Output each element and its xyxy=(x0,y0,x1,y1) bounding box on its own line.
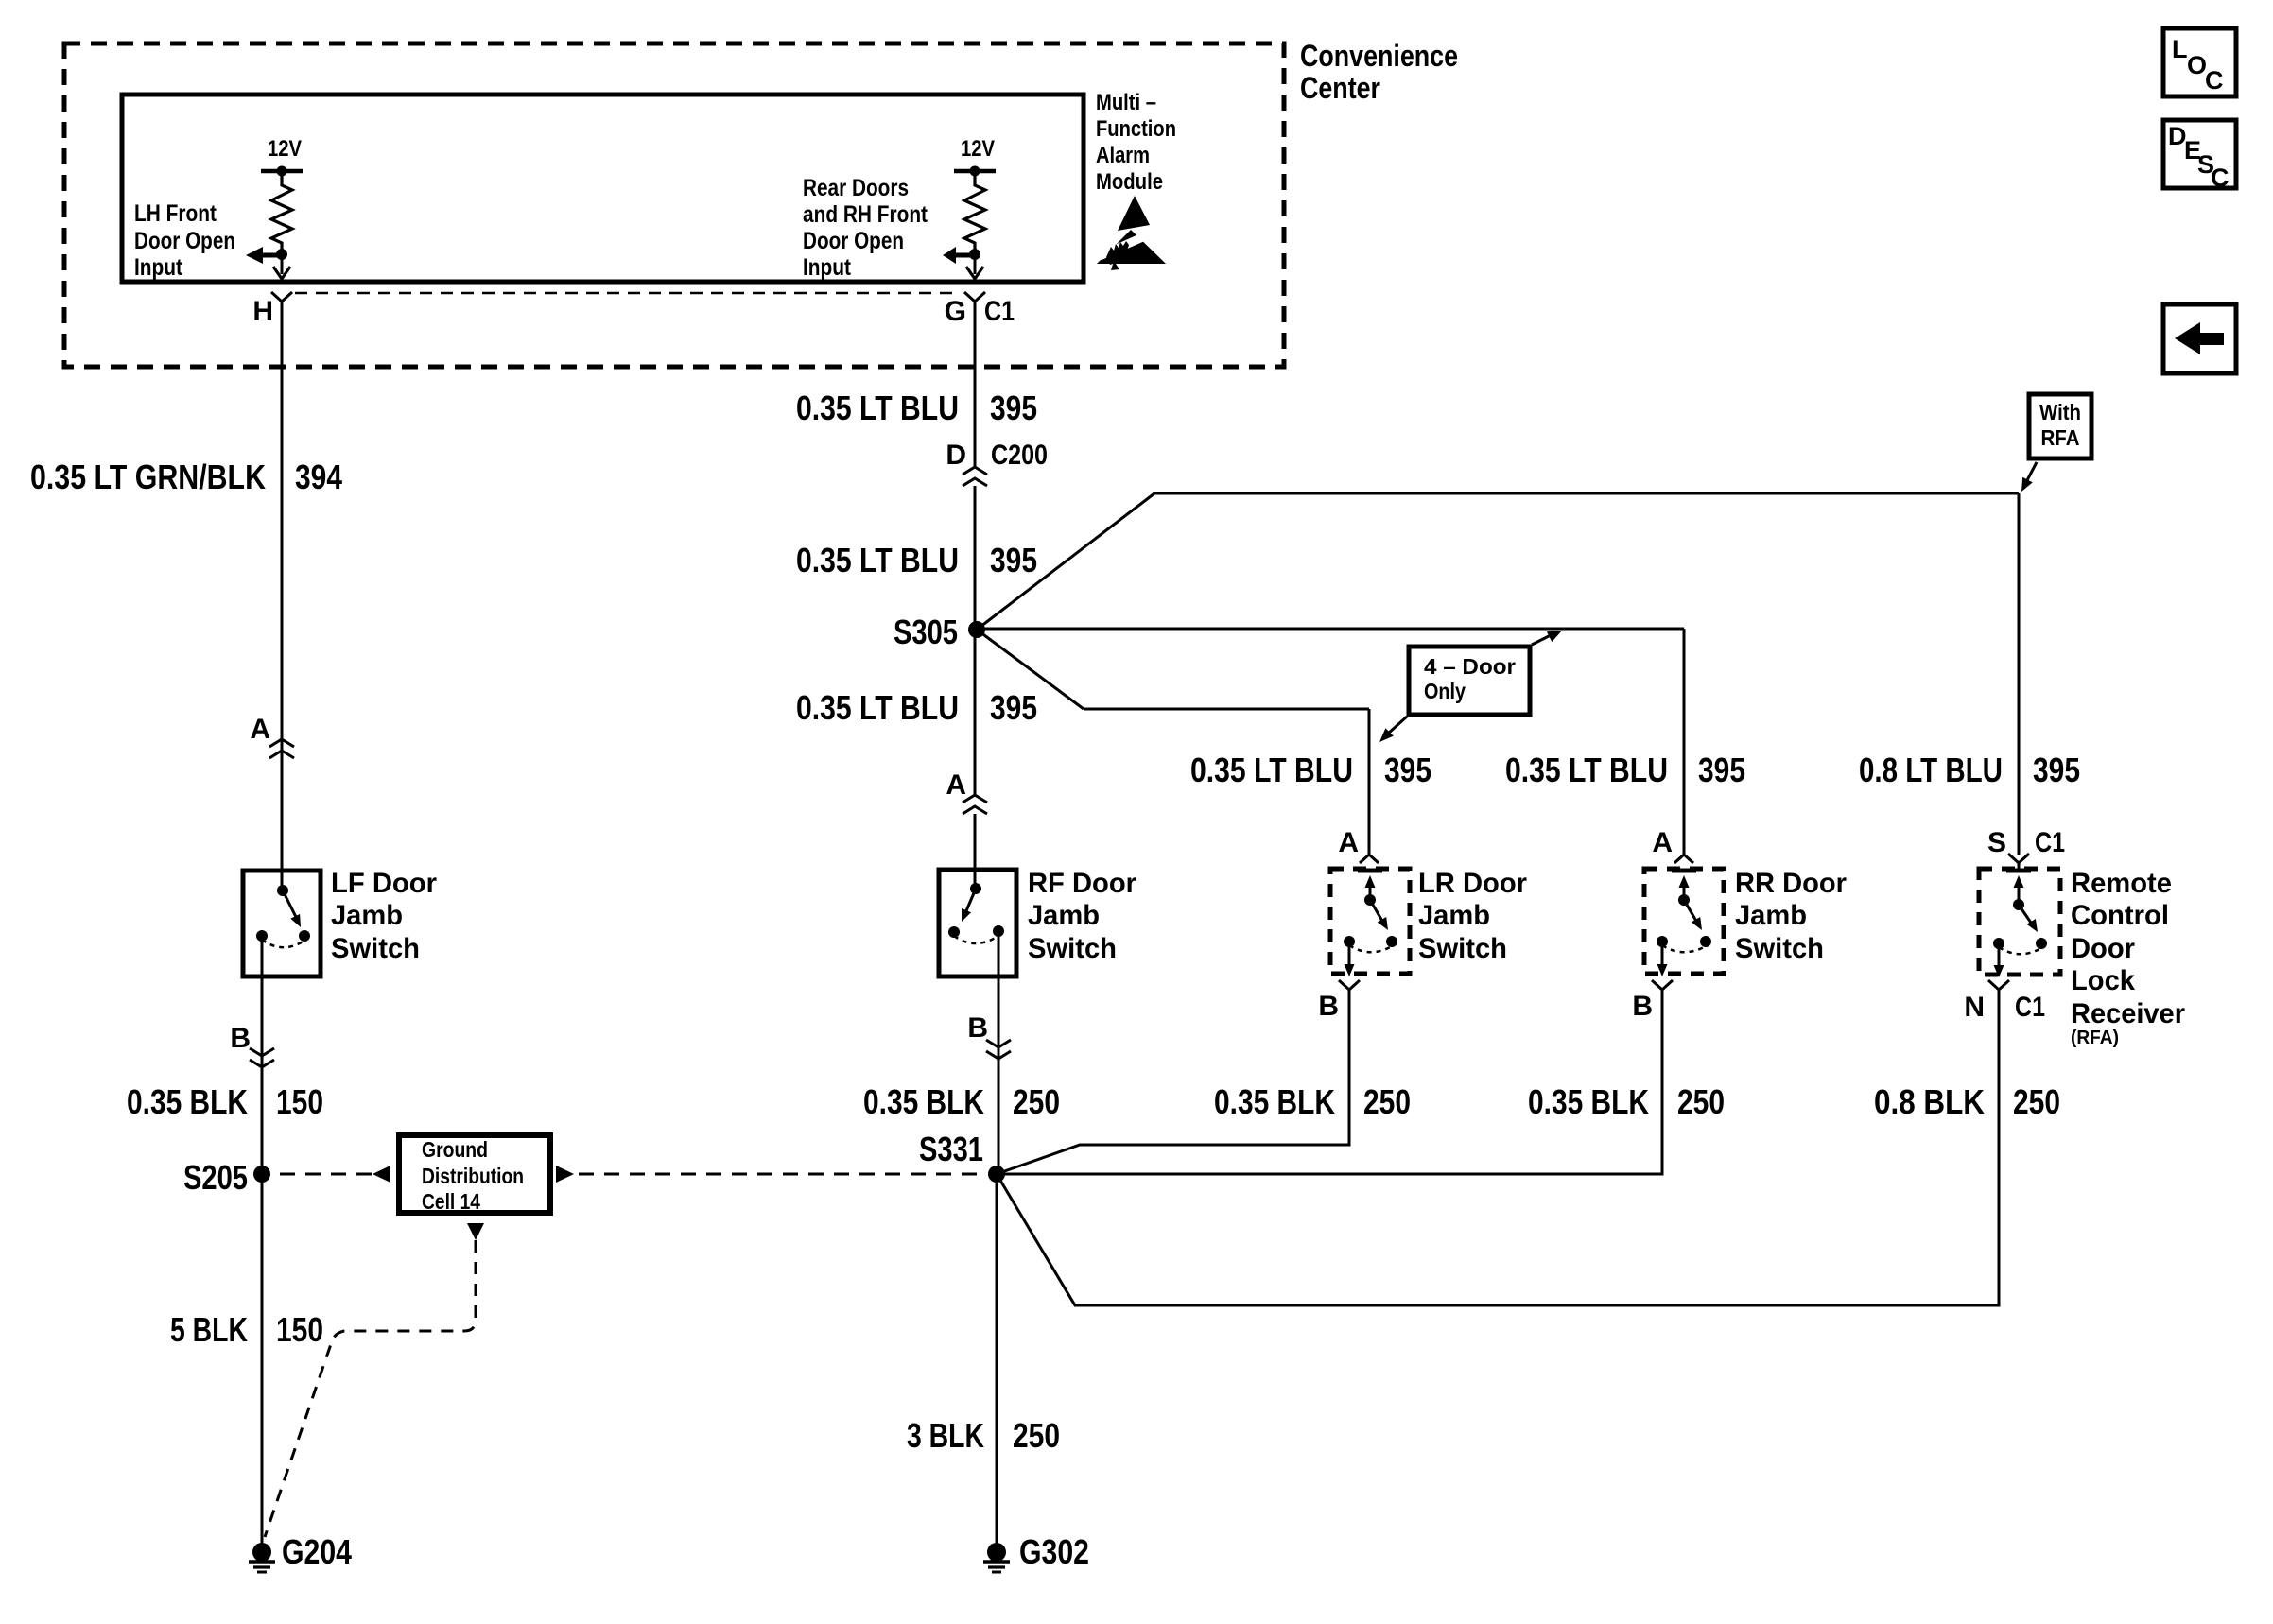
RF switch blade arrowhead xyxy=(962,908,971,922)
remote switch blade arrowhead xyxy=(2027,919,2039,932)
svg-text:and RH Front: and RH Front xyxy=(803,201,928,228)
svg-text:B: B xyxy=(230,1023,251,1054)
svg-text:Switch: Switch xyxy=(1418,933,1507,964)
svg-text:C1: C1 xyxy=(2015,992,2045,1023)
connector A (left) double chevron xyxy=(269,739,294,758)
RR switch blade arrowhead xyxy=(1692,917,1702,930)
svg-text:0.8 LT BLU: 0.8 LT BLU xyxy=(1859,751,2003,789)
svg-text:12V: 12V xyxy=(268,136,302,162)
LR door jamb switch dashed box xyxy=(1330,869,1410,974)
ground G204 symbol bars xyxy=(249,1560,275,1564)
remote switch exit arrowhead xyxy=(1994,965,2004,977)
RR switch exit arrowhead xyxy=(1657,964,1668,976)
RR switch travel arc xyxy=(1662,945,1706,952)
wire LR branch horizontal xyxy=(1084,708,1369,711)
wire from S331 to G302 xyxy=(996,1174,998,1545)
dashed wire S205 to ground distribution box xyxy=(280,1173,372,1176)
svg-text:150: 150 xyxy=(276,1310,323,1349)
connector B chevron (RR) xyxy=(1652,980,1673,998)
LF switch right contact dot xyxy=(299,930,310,942)
svg-text:Center: Center xyxy=(1300,71,1380,105)
svg-text:Input: Input xyxy=(134,254,183,281)
RR switch blade xyxy=(1684,900,1697,923)
wire LR branch vertical xyxy=(1368,709,1371,855)
LR switch left contact dot xyxy=(1344,936,1355,947)
svg-text:RR Door: RR Door xyxy=(1735,868,1847,899)
junction dot on 12V bar (right) xyxy=(970,166,980,177)
wire RR switch to S331 xyxy=(997,998,1662,1174)
svg-text:Remote: Remote xyxy=(2071,868,2172,899)
svg-text:Switch: Switch xyxy=(1028,933,1117,964)
wire from S205 to G204 xyxy=(261,1174,264,1545)
wire 394 from pin H to LF door jamb switch xyxy=(281,310,284,892)
ground G302 terminal dot xyxy=(987,1543,1006,1562)
convenience center dashed boundary box xyxy=(64,43,1284,367)
svg-text:0.35 LT BLU: 0.35 LT BLU xyxy=(1190,751,1353,789)
connector N chevron xyxy=(1988,980,2009,998)
svg-text:395: 395 xyxy=(1384,751,1431,789)
arrowhead below ground distribution box xyxy=(467,1223,484,1240)
connector B chevron (LR) xyxy=(1339,980,1360,998)
wire remote receiver to S331 branch xyxy=(997,998,1999,1305)
svg-text:With: With xyxy=(2039,400,2081,424)
LR switch exit arrowhead xyxy=(1345,964,1355,976)
svg-text:B: B xyxy=(1318,991,1339,1022)
wire S305 to RR door switch xyxy=(977,628,1684,631)
LR switch right contact dot xyxy=(1386,936,1397,947)
svg-text:0.35 BLK: 0.35 BLK xyxy=(127,1082,248,1121)
junction dot below resistor (left) xyxy=(276,249,287,260)
svg-text:C1: C1 xyxy=(984,296,1015,327)
node S205 junction dot xyxy=(253,1166,270,1183)
LR switch blade arrowhead xyxy=(1378,917,1388,930)
connector A (middle) double chevron xyxy=(963,795,987,814)
wire from resistor to module pin G xyxy=(974,254,977,274)
wire from RF switch to S331 xyxy=(998,931,1000,1174)
LF switch pivot dot xyxy=(277,885,288,896)
svg-text:Jamb: Jamb xyxy=(1028,900,1100,931)
remote receiver dashed box xyxy=(1979,869,2060,975)
LF switch left contact dot xyxy=(256,930,268,942)
RR switch pivot dot xyxy=(1678,894,1690,906)
svg-text:B: B xyxy=(1632,991,1653,1022)
svg-text:LF Door: LF Door xyxy=(331,868,437,899)
svg-text:G302: G302 xyxy=(1019,1532,1089,1571)
remote switch up arrowhead xyxy=(2014,875,2024,888)
wire S305 to RFA receiver (horizontal) xyxy=(1154,492,2019,495)
svg-text:Switch: Switch xyxy=(1735,933,1824,964)
RF switch travel arc xyxy=(954,936,998,943)
svg-text:LH Front: LH Front xyxy=(134,200,217,227)
svg-text:H: H xyxy=(252,296,273,327)
svg-text:A: A xyxy=(946,769,966,801)
svg-text:150: 150 xyxy=(276,1082,323,1121)
LF door jamb switch box xyxy=(243,871,321,976)
arrowhead into pin H xyxy=(273,267,290,279)
wire RR branch vertical xyxy=(1683,629,1686,855)
svg-text:0.35 LT BLU: 0.35 LT BLU xyxy=(796,688,959,727)
svg-text:G: G xyxy=(945,296,966,327)
4-Door Only box xyxy=(1409,647,1530,715)
svg-text:Door Open: Door Open xyxy=(134,228,235,254)
svg-text:N: N xyxy=(1964,992,1985,1023)
svg-text:A: A xyxy=(250,714,270,745)
rear doors input arrow line xyxy=(954,253,975,258)
DESC legend box xyxy=(2163,120,2236,188)
pin H connector chevron xyxy=(271,292,292,310)
svg-text:Rear Doors: Rear Doors xyxy=(803,175,909,201)
rear doors input arrowhead xyxy=(943,247,956,264)
svg-text:Input: Input xyxy=(803,254,852,281)
RR switch exit wire xyxy=(1661,942,1664,966)
svg-text:Door: Door xyxy=(2071,933,2135,964)
svg-text:0.35 BLK: 0.35 BLK xyxy=(1528,1082,1649,1121)
RR switch up arrow line xyxy=(1683,885,1686,900)
ESD sensitivity symbol xyxy=(1118,196,1150,231)
resistor R-LH front door pull-up xyxy=(271,171,292,254)
remote switch travel arc xyxy=(1999,947,2041,954)
LR switch up arrow line xyxy=(1369,885,1372,900)
svg-text:Module: Module xyxy=(1096,169,1163,195)
svg-text:Jamb: Jamb xyxy=(1418,900,1490,931)
junction dot on 12V bar (left) xyxy=(277,166,287,177)
remote switch left contact dot xyxy=(1993,938,2004,949)
12V supply bar (right) xyxy=(954,169,996,174)
connector B (middle) double chevron xyxy=(986,1040,1011,1059)
svg-text:Switch: Switch xyxy=(331,933,420,964)
remote switch blade xyxy=(2019,905,2033,925)
svg-text:0.35 BLK: 0.35 BLK xyxy=(1214,1082,1335,1121)
svg-text:Convenience: Convenience xyxy=(1300,39,1458,73)
LF switch blade xyxy=(283,890,297,919)
svg-text:0.35 LT GRN/BLK: 0.35 LT GRN/BLK xyxy=(30,458,266,496)
svg-text:L: L xyxy=(2172,35,2188,63)
ground G204 terminal dot xyxy=(252,1543,271,1562)
svg-text:395: 395 xyxy=(990,389,1037,427)
remote switch fixed contact bar xyxy=(2006,869,2031,873)
wire from S305 to connector A (middle) xyxy=(974,630,977,797)
LR switch up arrowhead xyxy=(1365,875,1376,888)
svg-text:Receiver: Receiver xyxy=(2071,998,2185,1029)
4-Door pointer line NE xyxy=(1532,635,1551,645)
wire LR switch to S331 branch xyxy=(997,998,1349,1174)
svg-text:A: A xyxy=(1338,827,1359,858)
svg-text:Door Open: Door Open xyxy=(803,228,904,254)
connector C200 double chevron xyxy=(963,467,987,486)
connector B (left) double chevron xyxy=(250,1048,274,1067)
svg-text:Control: Control xyxy=(2071,900,2169,931)
svg-text:S305: S305 xyxy=(894,613,958,651)
svg-text:S: S xyxy=(1987,827,2006,858)
svg-text:250: 250 xyxy=(1677,1082,1725,1121)
remote switch exit wire xyxy=(1998,943,2001,967)
12V supply bar (left) xyxy=(261,169,303,174)
node S331 junction dot xyxy=(988,1166,1005,1183)
pin G connector chevron xyxy=(964,292,985,310)
remote switch pivot dot xyxy=(2013,899,2024,910)
LR switch pivot dot xyxy=(1364,894,1376,906)
connector A chevron (LR) xyxy=(1360,855,1379,863)
svg-text:(RFA): (RFA) xyxy=(2071,1028,2119,1048)
resistor R-rear doors pull-up xyxy=(964,171,985,254)
RF switch left contact dot xyxy=(948,926,960,938)
svg-text:Alarm: Alarm xyxy=(1096,143,1150,168)
LR switch fixed contact bar xyxy=(1358,869,1382,873)
svg-text:395: 395 xyxy=(990,688,1037,727)
svg-text:Distribution: Distribution xyxy=(422,1164,524,1188)
arrowhead pointing to S205 xyxy=(373,1166,390,1183)
remote switch up arrow line xyxy=(2018,885,2021,905)
svg-text:Jamb: Jamb xyxy=(331,900,403,931)
svg-text:0.8 BLK: 0.8 BLK xyxy=(1874,1082,1985,1121)
LR switch travel arc xyxy=(1349,945,1392,952)
svg-text:250: 250 xyxy=(1363,1082,1411,1121)
arrowhead pointing right from box xyxy=(556,1166,574,1183)
With RFA pointer line xyxy=(2026,462,2037,482)
wire from C200 to S305 xyxy=(974,486,977,630)
svg-text:B: B xyxy=(967,1012,988,1044)
svg-text:Multi –: Multi – xyxy=(1096,90,1156,115)
RR switch right contact dot xyxy=(1700,936,1711,947)
junction dot below resistor (right) xyxy=(969,249,980,260)
back arrow legend box xyxy=(2163,304,2236,373)
multi-function alarm module solid box xyxy=(122,95,1084,282)
svg-text:C: C xyxy=(2211,164,2230,192)
LF switch blade arrowhead xyxy=(290,914,301,927)
4-Door pointer line SW xyxy=(1388,717,1407,734)
svg-text:5 BLK: 5 BLK xyxy=(170,1310,248,1349)
RR switch fixed contact bar xyxy=(1672,869,1696,873)
ground distribution cell box xyxy=(399,1135,550,1213)
RR door jamb switch dashed box xyxy=(1644,869,1724,974)
wire from connector A to RF switch xyxy=(974,814,977,890)
svg-text:12V: 12V xyxy=(961,136,995,162)
svg-text:Only: Only xyxy=(1424,679,1466,703)
svg-text:250: 250 xyxy=(1013,1082,1060,1121)
svg-text:0.35 LT BLU: 0.35 LT BLU xyxy=(796,389,959,427)
svg-text:LR Door: LR Door xyxy=(1418,868,1527,899)
wire from LF switch to S205 xyxy=(261,936,264,1174)
connector S chevron xyxy=(2008,854,2029,872)
svg-text:RFA: RFA xyxy=(2041,425,2080,450)
LOC legend box xyxy=(2163,28,2236,96)
svg-text:Lock: Lock xyxy=(2071,965,2135,996)
svg-text:0.35 LT BLU: 0.35 LT BLU xyxy=(796,541,959,579)
LF switch travel arc xyxy=(262,940,304,947)
LR switch blade xyxy=(1370,900,1383,923)
remote switch right contact dot xyxy=(2036,938,2047,949)
RF switch pivot dot xyxy=(970,883,981,894)
svg-text:O: O xyxy=(2187,51,2207,79)
svg-text:A: A xyxy=(1652,827,1673,858)
connector A chevron (RR) xyxy=(1674,855,1693,863)
RR switch left contact dot xyxy=(1657,936,1668,947)
module connector face dashed line xyxy=(295,292,955,295)
svg-text:C1: C1 xyxy=(2035,827,2065,858)
With RFA pointer arrowhead xyxy=(2021,477,2033,492)
LH door open input arrowhead xyxy=(246,247,263,264)
RF switch blade xyxy=(965,889,976,913)
With RFA box xyxy=(2029,394,2091,458)
dashed wire ground box to S331 xyxy=(579,1173,983,1176)
svg-text:395: 395 xyxy=(1698,751,1745,789)
RR switch up arrowhead xyxy=(1679,875,1690,888)
svg-text:250: 250 xyxy=(1013,1416,1060,1455)
4-Door pointer arrowhead SW xyxy=(1379,728,1394,742)
wire S305 to RFA receiver (vertical) xyxy=(2018,493,2021,855)
4-Door pointer arrowhead NE xyxy=(1547,631,1562,642)
arrowhead into pin G xyxy=(966,267,983,279)
svg-text:S331: S331 xyxy=(919,1130,983,1168)
wire from resistor to module pin H xyxy=(281,254,284,274)
svg-text:Jamb: Jamb xyxy=(1735,900,1807,931)
svg-text:0.35 BLK: 0.35 BLK xyxy=(863,1082,984,1121)
svg-text:3 BLK: 3 BLK xyxy=(907,1416,984,1455)
svg-text:C: C xyxy=(2205,66,2224,95)
RF door jamb switch box xyxy=(939,870,1016,976)
svg-text:4 – Door: 4 – Door xyxy=(1424,654,1516,679)
svg-text:0.35 LT BLU: 0.35 LT BLU xyxy=(1505,751,1668,789)
svg-text:S205: S205 xyxy=(183,1158,248,1197)
ground G302 symbol bars xyxy=(983,1560,1010,1564)
svg-text:395: 395 xyxy=(990,541,1037,579)
svg-text:G204: G204 xyxy=(282,1532,352,1571)
wire S305 to LR door switch (diagonal) xyxy=(977,630,1084,709)
back arrow icon xyxy=(2175,322,2224,354)
svg-text:RF Door: RF Door xyxy=(1028,868,1136,899)
svg-text:Ground: Ground xyxy=(422,1137,488,1162)
svg-text:394: 394 xyxy=(295,458,342,496)
svg-text:Cell 14: Cell 14 xyxy=(422,1189,480,1214)
LH door open input arrow line xyxy=(261,253,282,258)
node S305 junction dot xyxy=(968,621,985,638)
LR switch exit wire xyxy=(1348,942,1351,966)
svg-text:Function: Function xyxy=(1096,116,1176,142)
wire 395 from pin G to C200 xyxy=(974,310,977,467)
RF switch right contact dot xyxy=(993,925,1004,937)
svg-text:395: 395 xyxy=(2033,751,2080,789)
wire S305 to RFA receiver (diagonal) xyxy=(977,493,1154,630)
svg-text:250: 250 xyxy=(2013,1082,2060,1121)
svg-text:C200: C200 xyxy=(991,440,1048,471)
dashed wire below ground box xyxy=(265,1240,476,1537)
svg-text:D: D xyxy=(946,440,966,471)
